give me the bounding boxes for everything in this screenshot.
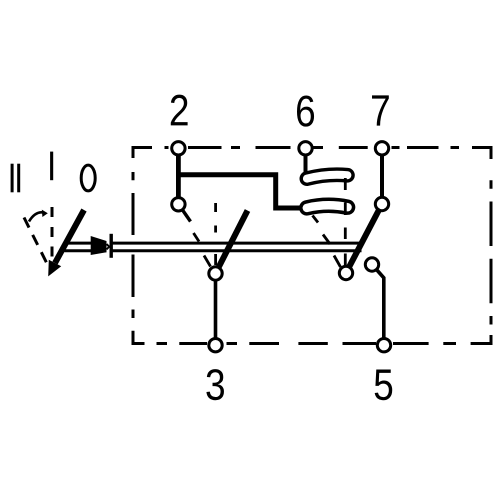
terminal 3 <box>209 339 222 352</box>
pole5 dashed position-II line <box>313 216 341 268</box>
wire thick L from terminal 2 to lamp E2 <box>178 175 301 208</box>
wire terminal7 stub <box>380 148 384 199</box>
switch housing border (dash-dot box) <box>133 146 491 345</box>
label terminal 6 <box>297 95 314 126</box>
label terminal 5 <box>375 370 393 401</box>
wire terminal2 stub <box>176 148 181 199</box>
pole7 fixed contact <box>375 197 388 210</box>
terminal 5 <box>377 339 390 352</box>
actuator solid lever (position 0) with arrowhead <box>48 210 84 276</box>
wire terminal6 stub <box>304 148 308 172</box>
label terminal 3 <box>206 369 224 400</box>
lamp E2 (illumination lamp) <box>307 205 348 208</box>
actuator dashed lever position II <box>24 218 49 268</box>
pole5 solid lever (position 0) <box>347 206 381 271</box>
lamp E1 (illumination lamp) <box>307 175 348 179</box>
pole3 dashed position-I line <box>214 203 217 265</box>
pole2 contact tail <box>182 209 191 222</box>
label terminal 7 <box>372 95 389 125</box>
position label 0 <box>81 165 95 191</box>
mechanical linkage rail (double line) <box>65 243 362 251</box>
pole5 moving contact pivot <box>339 266 352 279</box>
pole5 fixed contact <box>365 258 378 271</box>
wire terminal3 stub <box>214 274 218 345</box>
pole3 solid lever (position 0) <box>219 211 248 268</box>
actuator motion arrow (curved) <box>29 210 48 222</box>
label terminal 2 <box>171 95 188 126</box>
pole3 moving contact pivot <box>209 267 222 280</box>
actuator dashed lever position I <box>51 207 54 257</box>
detent latch symbol (arrow against stop) <box>91 234 112 258</box>
position label I <box>50 152 53 181</box>
terminal 6 <box>299 142 312 155</box>
pole2 fixed contact <box>172 198 185 211</box>
terminal 7 <box>375 142 388 155</box>
wire contact to terminal5 <box>372 265 384 345</box>
pole5 dashed position-I line <box>344 178 347 266</box>
terminal 2 <box>172 142 185 155</box>
position label II <box>11 164 21 193</box>
pole3 dashed position-II line <box>194 233 211 267</box>
